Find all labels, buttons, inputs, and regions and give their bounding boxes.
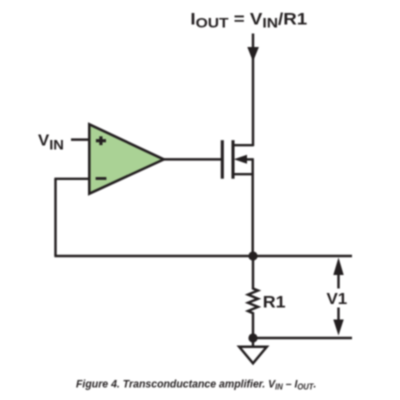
- svg-text:V1: V1: [327, 290, 348, 307]
- svg-text:Figure 4. Transconductance amp: Figure 4. Transconductance amplifier. VI…: [76, 378, 316, 391]
- svg-text:R1: R1: [263, 292, 286, 312]
- svg-text:IOUT = VIN/R1: IOUT = VIN/R1: [190, 9, 307, 31]
- svg-text:VIN: VIN: [38, 132, 64, 153]
